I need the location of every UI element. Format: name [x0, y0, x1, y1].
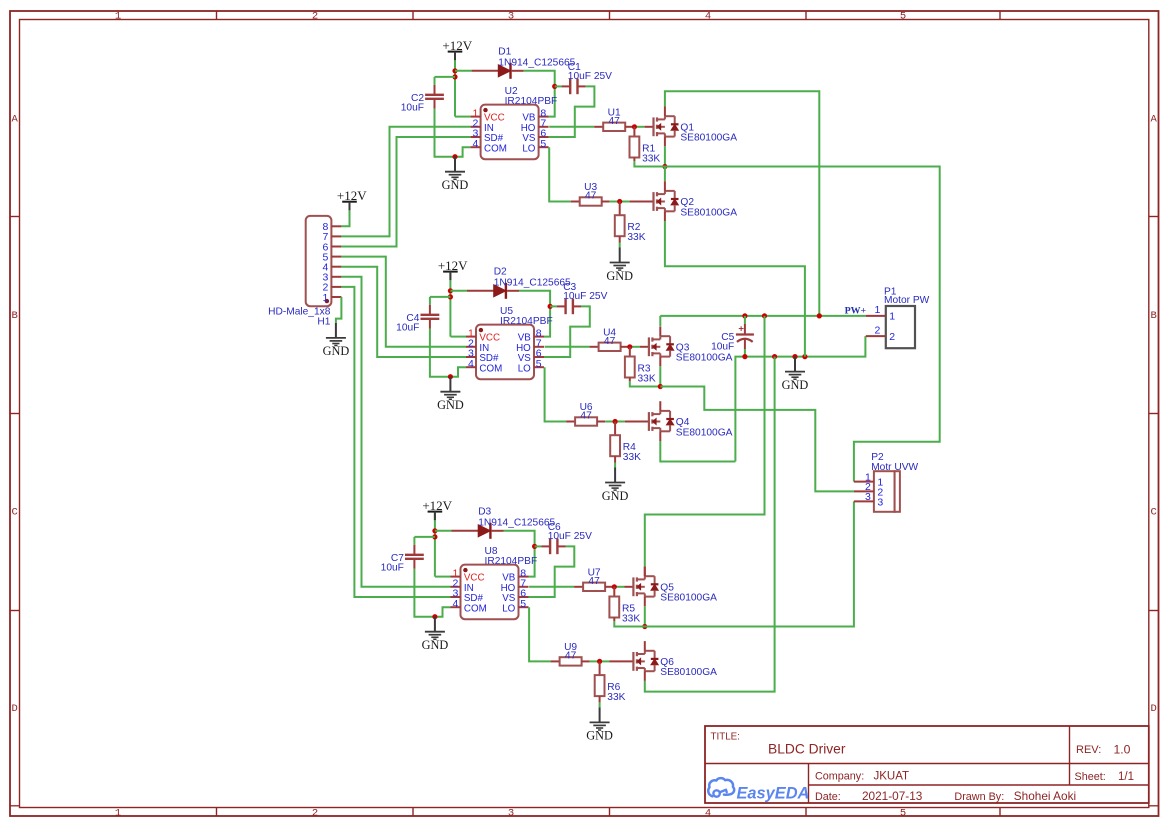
- wire R5 bottom to source row: [613, 618, 615, 622]
- wire U6 to gate Q4: [597, 421, 605, 423]
- label Q3 SE80100GA: [676, 342, 733, 363]
- wire H1 pin7 to U2 IN: [341, 127, 470, 237]
- svg-text:SE80100GA: SE80100GA: [680, 207, 737, 218]
- label R5 33K: [622, 604, 640, 625]
- resistor U7 47: [583, 583, 605, 591]
- label R4 33K: [623, 442, 641, 463]
- svg-text:5: 5: [536, 358, 542, 370]
- label U1 47: [608, 108, 621, 127]
- wire U4 to gate Q3: [621, 346, 630, 348]
- U8 pin 7 (HO): [501, 578, 529, 594]
- U5 pin 1 (VCC): [466, 327, 500, 343]
- op-amp U gate-driver U8 body: [461, 565, 519, 620]
- title block: [705, 726, 1149, 803]
- node gate junction Q2: [617, 199, 622, 204]
- U5 pin 8 (VB): [518, 327, 544, 343]
- U5 pin 7 (HO): [516, 338, 544, 354]
- svg-text:GND: GND: [442, 178, 469, 192]
- label C1 10uF 25V: [568, 62, 612, 82]
- wire R4 top lead: [614, 422, 616, 436]
- svg-text:47: 47: [585, 191, 597, 202]
- svg-text:BLDC Driver: BLDC Driver: [768, 742, 846, 757]
- resistor U3 47: [580, 197, 602, 205]
- node Q2-return/ground junction: [802, 354, 807, 359]
- svg-text:TITLE:: TITLE:: [711, 732, 740, 743]
- wire LO riser to U6: [545, 367, 567, 421]
- wire C1 left lead: [555, 85, 562, 87]
- wire C6 right lead to VS: [557, 545, 565, 547]
- wire R1 bottom to source row: [633, 158, 635, 162]
- label R1 33K: [642, 144, 660, 165]
- svg-text:47: 47: [565, 651, 577, 662]
- wire C3 left lead: [550, 305, 557, 307]
- wire Q4 source return: [660, 441, 735, 462]
- svg-text:10uF 25V: 10uF 25V: [563, 291, 607, 302]
- svg-text:D: D: [1150, 703, 1156, 715]
- node ground junction (U8): [432, 614, 437, 619]
- U8 pin 4 (COM): [451, 598, 487, 614]
- svg-text:2: 2: [312, 807, 318, 819]
- svg-text:10uF 25V: 10uF 25V: [548, 531, 592, 542]
- svg-text:33K: 33K: [642, 153, 660, 164]
- node PW+/Q5-riser junction: [762, 313, 767, 318]
- wire PW+ riser to Q5 drain: [645, 316, 765, 567]
- connector P2 Motr UVW body: [874, 471, 900, 512]
- svg-text:1: 1: [115, 807, 121, 819]
- svg-text:4: 4: [468, 358, 474, 370]
- svg-text:3: 3: [508, 11, 514, 23]
- U2 pin 8 (VB): [522, 107, 548, 123]
- svg-text:1: 1: [874, 304, 880, 316]
- svg-text:5: 5: [900, 807, 906, 819]
- P1 pin 2: [866, 324, 896, 343]
- label R3 33K: [638, 364, 656, 385]
- wire source Q5 to output row: [644, 606, 646, 626]
- wire +12V stem (U5): [449, 272, 451, 337]
- transistor Q4: [649, 401, 674, 441]
- diode D2: [494, 283, 506, 299]
- P2 pin 3: [854, 491, 884, 508]
- P2 pin 1: [854, 471, 884, 488]
- wire R2 top lead: [619, 202, 621, 216]
- ground (below R4): [602, 468, 629, 503]
- transistor Q3: [649, 327, 674, 367]
- wire C2 top lead: [435, 76, 456, 78]
- wire C6 left lead: [535, 545, 542, 547]
- node PW+/Q1-rail junction: [817, 313, 822, 318]
- resistor U6 47: [575, 417, 597, 425]
- node ground junction (U5): [448, 374, 453, 379]
- U2 pin 7 (HO): [521, 118, 549, 134]
- wire H1 pin4 to U5 SD#: [341, 267, 466, 357]
- H1 pin 2: [323, 282, 342, 294]
- resistor U4 47: [599, 343, 621, 351]
- node +12V/cap junction (U8): [432, 534, 437, 539]
- label U3 47: [584, 182, 597, 201]
- wire +12V stem (U2): [454, 52, 456, 117]
- node ground junction (U2): [452, 154, 457, 159]
- U8 pin 2 (IN): [451, 578, 474, 594]
- svg-text:+12V: +12V: [438, 258, 468, 273]
- wire U3 to gate Q2: [602, 201, 610, 203]
- svg-text:IR2104PBF: IR2104PBF: [485, 556, 538, 567]
- connector H1 HD-Male_1x8 body: [306, 216, 332, 306]
- wire C3 right lead to VS: [573, 305, 581, 307]
- H1 pin 8: [323, 221, 342, 233]
- H1 pin 7: [323, 231, 342, 243]
- svg-text:4: 4: [705, 11, 711, 23]
- title block text: [711, 732, 1135, 804]
- wire Q2 source return: [665, 221, 805, 357]
- resistor R6 33K: [595, 675, 605, 696]
- node gate junction Q4: [613, 419, 618, 424]
- transistor Q1: [654, 107, 679, 147]
- transistor Q5: [633, 567, 658, 607]
- label C7 10uF: [381, 553, 405, 573]
- node gate junction Q3: [627, 344, 632, 349]
- label U2 IR2104PBF: [505, 86, 558, 107]
- U2 pin 4 (COM): [471, 138, 507, 154]
- svg-text:Drawn By:: Drawn By:: [954, 791, 1004, 803]
- wire HO to U4: [545, 346, 590, 348]
- svg-text:LO: LO: [522, 143, 535, 154]
- wire R3 top lead: [629, 347, 631, 357]
- svg-text:3: 3: [508, 807, 514, 819]
- svg-text:B: B: [1150, 310, 1156, 322]
- label P1 Motor PW: [884, 286, 930, 306]
- ground (U2 block): [442, 157, 469, 192]
- resistor R2 33K: [615, 215, 625, 236]
- H1 pin 3: [323, 272, 342, 284]
- U5 pin 3 (SD#): [466, 348, 499, 364]
- wire source Q1 to output row: [664, 146, 666, 166]
- ground (below R6): [586, 707, 613, 742]
- wire +12V stem (U8): [434, 512, 436, 577]
- U5 pin 2 (IN): [466, 338, 489, 354]
- svg-text:+12V: +12V: [422, 498, 452, 513]
- svg-text:Company:: Company:: [815, 771, 864, 783]
- svg-text:C: C: [12, 507, 18, 519]
- svg-text:1: 1: [889, 311, 895, 323]
- label R2 33K: [627, 222, 645, 243]
- svg-text:LO: LO: [502, 603, 515, 614]
- U2 pin 5 (LO): [522, 138, 548, 154]
- wire COM to ground (U5): [450, 367, 466, 377]
- svg-text:A: A: [1150, 114, 1157, 126]
- node GND-symbol junction: [792, 354, 797, 359]
- wire source Q3 to output row: [659, 366, 661, 386]
- node +12V/diode junction (U5): [448, 288, 453, 293]
- svg-text:SE80100GA: SE80100GA: [676, 353, 733, 364]
- wire phase V output (Q3/Q4) to P2 pin2: [660, 387, 854, 492]
- svg-text:Motor PW: Motor PW: [884, 295, 930, 306]
- svg-text:D1: D1: [498, 47, 511, 58]
- wire +12V to VCC pin (U2): [455, 116, 471, 118]
- wire U1 to gate Q1: [625, 126, 634, 128]
- node +12V/diode junction (U2): [452, 68, 457, 73]
- capacitor C2: [425, 95, 444, 99]
- capacitor C3: [566, 299, 573, 315]
- label C2 10uF: [401, 93, 425, 113]
- node +12V/cap junction (U5): [448, 294, 453, 299]
- label U9 47: [564, 642, 577, 661]
- node PW+/C5 junction: [742, 313, 747, 318]
- label Q4 SE80100GA: [676, 417, 733, 438]
- svg-text:A: A: [12, 114, 19, 126]
- ground (below R2): [606, 248, 633, 283]
- wire Q6 source return: [645, 357, 775, 692]
- node gate junction Q6: [597, 659, 602, 664]
- svg-text:4: 4: [473, 138, 479, 150]
- svg-text:Date:: Date:: [815, 791, 841, 803]
- svg-text:GND: GND: [437, 398, 464, 412]
- svg-text:10uF: 10uF: [396, 322, 419, 333]
- diode D3: [478, 523, 490, 539]
- svg-text:LO: LO: [518, 363, 531, 374]
- +12V power flag (U2 block): [442, 38, 472, 60]
- svg-text:33K: 33K: [627, 232, 645, 243]
- wire H1 pin3 to U8 IN: [341, 277, 450, 587]
- node C5/ground junction: [742, 354, 747, 359]
- node source junction Q5: [642, 624, 647, 629]
- wire R6 top lead: [599, 661, 601, 675]
- label H1 HD-Male_1x8: [268, 306, 331, 327]
- svg-text:EasyEDA: EasyEDA: [737, 785, 810, 803]
- node Q6-riser/ground junction: [772, 354, 777, 359]
- label C4 10uF: [396, 313, 420, 333]
- wire cathode D1 to VB: [512, 70, 524, 72]
- svg-text:3: 3: [877, 496, 883, 508]
- wire COM to ground (U2): [455, 147, 471, 157]
- U2 pin 3 (SD#): [471, 128, 504, 144]
- label Q1 SE80100GA: [680, 122, 737, 143]
- U5 pin 4 (COM): [466, 358, 502, 374]
- wire C4 top lead: [430, 296, 451, 298]
- wire U9 to gate Q6: [582, 660, 590, 662]
- label Q5 SE80100GA: [660, 582, 717, 603]
- svg-text:1N914_C125665: 1N914_C125665: [478, 517, 555, 528]
- svg-text:1.0: 1.0: [1114, 743, 1131, 757]
- wire Q1 drain rail to PW+ riser: [665, 91, 819, 316]
- resistor R1 33K: [630, 137, 640, 158]
- wire C7 top lead: [414, 536, 435, 538]
- svg-text:H1: H1: [317, 316, 330, 327]
- capacitor C7: [405, 555, 424, 559]
- label C6 10uF 25V: [548, 522, 592, 542]
- svg-text:D: D: [12, 703, 18, 715]
- +12V power flag (H1): [337, 188, 367, 210]
- wire H1 pin1 to ground: [336, 297, 342, 323]
- wire R4 bottom to ground: [614, 456, 616, 462]
- node source junction Q1: [662, 164, 667, 169]
- ground (U8 block): [422, 617, 449, 652]
- node +12V/cap junction (U2): [452, 74, 457, 79]
- svg-text:PW+: PW+: [845, 306, 867, 317]
- H1 pin 4: [323, 262, 342, 274]
- H1 pin 1: [323, 292, 342, 304]
- node cathode/cap junction (C6): [532, 544, 537, 549]
- svg-text:GND: GND: [586, 729, 613, 743]
- svg-text:1N914_C125665: 1N914_C125665: [494, 277, 571, 288]
- svg-text:IR2104PBF: IR2104PBF: [505, 96, 558, 107]
- U8 pin 1 (VCC): [451, 567, 485, 583]
- label U4 47: [603, 328, 616, 347]
- connector P1 Motor PW body: [886, 306, 915, 348]
- wire PW+ row: [660, 315, 866, 317]
- label U6 47: [580, 402, 593, 421]
- ground (U5 block): [437, 377, 464, 412]
- node cathode/cap junction (C3): [548, 304, 553, 309]
- U8 pin 5 (LO): [502, 598, 528, 614]
- svg-text:SE80100GA: SE80100GA: [680, 133, 737, 144]
- wire R3 bottom to source row: [629, 378, 631, 382]
- svg-text:1/1: 1/1: [1118, 771, 1134, 783]
- svg-text:2: 2: [889, 331, 895, 343]
- wire cathode D2 to VB: [507, 290, 519, 292]
- wire H1 pin5 to U5 IN: [341, 257, 466, 347]
- svg-text:2: 2: [312, 11, 318, 23]
- op-amp U gate-driver U5 body: [476, 325, 534, 380]
- label U5 IR2104PBF: [500, 306, 553, 327]
- svg-text:GND: GND: [602, 489, 629, 503]
- label D2 1N914_C125665: [494, 267, 571, 289]
- label Q6 SE80100GA: [660, 657, 717, 678]
- wire ground row (P1 pin2 net): [735, 336, 865, 461]
- wire cathode D3 to VB: [492, 530, 504, 532]
- svg-text:REV:: REV:: [1076, 744, 1101, 756]
- node source junction Q3: [658, 384, 663, 389]
- wire anode D1: [455, 70, 472, 72]
- wire phase W output (Q5/Q6) to P2 pin3: [614, 501, 854, 626]
- node gate junction Q5: [612, 584, 617, 589]
- label U7 47: [588, 568, 601, 587]
- resistor U9 47: [560, 657, 582, 665]
- svg-text:3: 3: [865, 491, 871, 503]
- +12V power flag (U5 block): [438, 258, 468, 280]
- wire HO to U1: [549, 126, 594, 128]
- wire H1 pin6 to U2 SD#: [341, 137, 470, 247]
- label P2 Motr UVW: [871, 452, 918, 473]
- svg-text:GND: GND: [422, 638, 449, 652]
- wire U7 to gate Q5: [605, 586, 614, 588]
- node +12V/diode junction (U8): [432, 528, 437, 533]
- svg-text:GND: GND: [323, 344, 350, 358]
- wire R1 top lead: [633, 127, 635, 137]
- wire C7 bottom lead to ground rail: [413, 559, 415, 569]
- wire anode D3: [435, 530, 452, 532]
- ground (C5 / P1): [782, 357, 809, 392]
- svg-text:C: C: [1150, 507, 1156, 519]
- U8 pin 3 (SD#): [451, 588, 484, 604]
- wire LO riser to U9: [529, 607, 551, 661]
- svg-text:D3: D3: [478, 507, 491, 518]
- svg-text:JKUAT: JKUAT: [874, 771, 910, 783]
- label D1 1N914_C125665: [498, 47, 575, 69]
- svg-text:33K: 33K: [622, 613, 640, 624]
- label C5 10uF: [711, 332, 735, 353]
- capacitor C1: [570, 79, 577, 95]
- svg-text:Shohei Aoki: Shohei Aoki: [1014, 789, 1076, 803]
- svg-text:10uF: 10uF: [401, 102, 424, 113]
- U8 pin 8 (VB): [502, 567, 528, 583]
- svg-text:Sheet:: Sheet:: [1075, 771, 1106, 783]
- svg-text:SE80100GA: SE80100GA: [676, 427, 733, 438]
- diode D1: [498, 63, 510, 79]
- wire +12V to VCC pin (U8): [435, 576, 451, 578]
- label U8 IR2104PBF: [485, 546, 538, 567]
- resistor U1 47: [603, 123, 625, 131]
- wire LO riser to U3: [549, 147, 571, 201]
- label C3 10uF 25V: [563, 282, 607, 302]
- U2 pin 1 (VCC): [471, 107, 505, 123]
- wire +12V to VCC pin (U5): [450, 336, 466, 338]
- svg-text:1: 1: [115, 11, 121, 23]
- wire R5 top lead: [613, 587, 615, 597]
- ground (H1): [323, 323, 350, 358]
- node cathode/cap junction (C1): [552, 84, 557, 89]
- svg-text:D2: D2: [494, 267, 507, 278]
- svg-text:5: 5: [540, 138, 546, 150]
- wire R6 bottom to ground: [599, 696, 601, 702]
- svg-text:+12V: +12V: [442, 38, 472, 53]
- transistor Q6: [633, 641, 658, 681]
- svg-text:COM: COM: [479, 363, 502, 374]
- svg-text:COM: COM: [484, 143, 507, 154]
- resistor R3 33K: [625, 357, 635, 378]
- H1 pin 6: [323, 241, 342, 253]
- U2 pin 2 (IN): [471, 118, 494, 134]
- U2 pin 6 (VS): [522, 128, 548, 144]
- svg-text:+: +: [738, 324, 744, 335]
- svg-text:2: 2: [874, 324, 880, 336]
- svg-text:33K: 33K: [607, 692, 625, 703]
- U8 pin 6 (VS): [502, 588, 528, 604]
- svg-text:B: B: [12, 310, 18, 322]
- wire R2 bottom to ground: [619, 236, 621, 242]
- svg-text:10uF 25V: 10uF 25V: [568, 71, 612, 82]
- wire C2 bottom lead to ground rail: [434, 99, 436, 109]
- svg-text:Motr UVW: Motr UVW: [871, 462, 918, 473]
- EasyEDA logo: [708, 778, 809, 802]
- svg-text:GND: GND: [782, 378, 809, 392]
- svg-text:1N914_C125665: 1N914_C125665: [498, 57, 575, 68]
- P2 pin 2: [854, 481, 884, 498]
- svg-text:10uF: 10uF: [711, 342, 734, 353]
- wire HO to U7: [529, 586, 574, 588]
- svg-text:33K: 33K: [623, 452, 641, 463]
- wire C4 bottom lead to ground rail: [429, 319, 431, 329]
- wire Q3 drain to PW+ row: [659, 316, 661, 326]
- svg-text:IR2104PBF: IR2104PBF: [500, 316, 553, 327]
- wire H1 pin2 to U8 SD#: [341, 287, 450, 597]
- wire H1 pin8 to +12V: [341, 202, 349, 227]
- capacitor C6: [550, 539, 557, 555]
- svg-text:5: 5: [520, 598, 526, 610]
- capacitor C5 10uF (polarized): [736, 316, 754, 357]
- wire Q2 drain to phase U row: [664, 167, 666, 182]
- svg-text:47: 47: [609, 116, 621, 127]
- svg-text:47: 47: [580, 411, 592, 422]
- wire anode D2: [450, 290, 467, 292]
- wire phase U output (Q1/Q2) to P2 pin1: [634, 167, 939, 482]
- node gate junction Q1: [632, 124, 637, 129]
- label D3 1N914_C125665: [478, 507, 555, 529]
- +12V power flag (U8 block): [422, 498, 452, 520]
- U5 pin 6 (VS): [518, 348, 544, 364]
- wire C1 right lead to VS: [578, 85, 586, 87]
- svg-text:SE80100GA: SE80100GA: [660, 593, 717, 604]
- svg-text:33K: 33K: [638, 373, 656, 384]
